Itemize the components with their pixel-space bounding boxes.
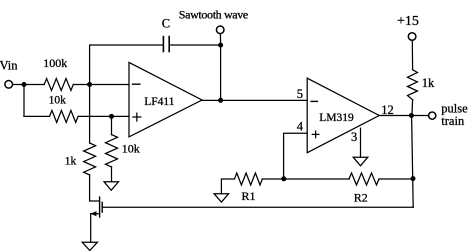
- node E junction: [218, 98, 223, 103]
- node H junction: [281, 176, 286, 181]
- svg-text:R2: R2: [354, 191, 368, 205]
- terminal sawtooth wave: [216, 26, 224, 34]
- svg-text:100k: 100k: [43, 56, 67, 70]
- resistor 100k: [44, 79, 73, 91]
- svg-text:train: train: [441, 114, 465, 128]
- node G junction: [411, 176, 416, 181]
- svg-text:Sawtooth wave: Sawtooth wave: [179, 8, 248, 22]
- wire node B up to capacitor: [90, 45, 164, 85]
- wire node B down to R1k: [89, 85, 91, 144]
- wire sawtooth terminal to node D: [219, 34, 221, 45]
- node F junction: [409, 113, 414, 118]
- wire node D down to node E: [220, 45, 222, 100]
- terminal Vin: [5, 81, 13, 89]
- wire to R10k: [24, 115, 50, 117]
- op-amp U1 triangle: [129, 62, 202, 136]
- wire R1k pullup to node F: [411, 100, 414, 116]
- svg-text:Vin: Vin: [0, 59, 18, 73]
- wire Vin to node A: [13, 84, 24, 86]
- resistor 1k vertical: [84, 143, 96, 175]
- svg-text:5: 5: [297, 87, 303, 101]
- svg-text:1k: 1k: [65, 155, 77, 167]
- ground below transistor: [82, 242, 97, 250]
- resistor 10k vertical: [106, 135, 118, 167]
- wire op-amp output to comparator inverting input: [202, 99, 307, 101]
- node A junction: [22, 82, 27, 87]
- svg-text:LF411: LF411: [144, 96, 174, 108]
- svg-text:4: 4: [297, 120, 304, 134]
- wire node A down: [23, 85, 25, 117]
- resistor 10k horizontal: [50, 110, 79, 122]
- wire R1k to transistor drain: [90, 175, 100, 201]
- ground below 10k: [104, 182, 119, 191]
- op-amp U1 plus marker: [133, 113, 141, 121]
- wire source to ground: [90, 214, 92, 243]
- wire R10k to op-amp noninverting input: [78, 115, 129, 117]
- wire node A to R100k: [24, 84, 44, 86]
- terminal +15: [408, 33, 416, 41]
- wire comparator output row: [379, 115, 428, 117]
- svg-text:C: C: [162, 17, 170, 31]
- wire R1 to R2 through node H: [262, 178, 349, 180]
- wire node C down to R10k vertical: [111, 116, 113, 134]
- svg-text:LM319: LM319: [319, 112, 354, 124]
- ground at R1 left: [214, 194, 229, 203]
- resistor 1k pullup: [408, 70, 418, 100]
- transistor Q1 source arrow: [91, 211, 97, 216]
- terminal pulse train: [429, 112, 436, 119]
- capacitor C: [163, 37, 169, 52]
- comparator U2 minus marker: [311, 100, 317, 102]
- svg-text:+15: +15: [397, 14, 419, 29]
- wire capacitor to node D: [169, 44, 220, 46]
- wire R10k vertical to ground: [111, 167, 113, 182]
- node D junction: [218, 43, 223, 48]
- transistor Q1 source lead: [91, 213, 100, 215]
- wire +15 to R1k pullup: [411, 40, 413, 69]
- transistor Q1 gate bar: [101, 202, 103, 212]
- svg-text:3: 3: [351, 130, 357, 144]
- pin 3 wire to ground: [360, 128, 362, 157]
- ground below pin 3: [353, 157, 368, 166]
- wire R2 to node G: [379, 178, 413, 180]
- svg-text:1k: 1k: [422, 76, 435, 90]
- op-amp U1 minus marker: [133, 83, 140, 85]
- wire comparator plus input stub: [284, 133, 308, 179]
- svg-text:10k: 10k: [49, 94, 67, 106]
- wire node F down through node G to gate row: [412, 116, 414, 208]
- wire R1 left with ground drop: [221, 179, 234, 194]
- svg-text:10k: 10k: [122, 142, 140, 156]
- comparator U2 triangle: [307, 78, 379, 153]
- resistor R2: [349, 173, 379, 185]
- node C junction: [109, 114, 114, 119]
- resistor R1: [235, 173, 263, 185]
- wire R100k to op-amp inverting input: [73, 84, 129, 86]
- comparator U2 plus marker: [312, 131, 319, 138]
- node B junction: [87, 82, 92, 87]
- transistor Q1 channel bar: [99, 197, 101, 217]
- wire gate row: [102, 206, 413, 208]
- svg-text:R1: R1: [242, 189, 256, 203]
